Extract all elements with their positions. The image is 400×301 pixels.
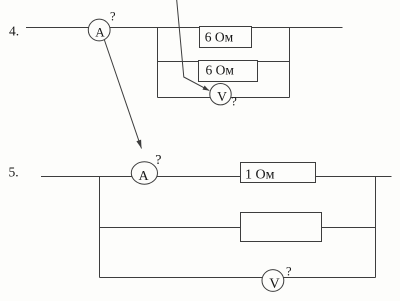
- wire ammeter A2 to right end: [156, 176, 392, 178]
- svg-text:6 Ом: 6 Ом: [206, 63, 235, 78]
- ammeter A2: [131, 162, 157, 184]
- resistor R3 1 Ом: [241, 163, 316, 183]
- wire left vertical branch (problem 4): [157, 28, 159, 98]
- wire right vertical branch (problem 4): [289, 28, 291, 98]
- wire middle rail (problem 5): [100, 227, 376, 229]
- svg-text:6 Ом: 6 Ом: [205, 30, 234, 45]
- svg-text:A: A: [138, 169, 149, 184]
- voltmeter V1: [210, 84, 231, 105]
- resistor R1 6 Ом: [200, 27, 252, 48]
- svg-text:V: V: [217, 89, 227, 104]
- resistor R4 unlabeled: [241, 213, 322, 242]
- ammeter A1: [88, 19, 110, 41]
- svg-text:?: ?: [231, 94, 237, 108]
- wire bottom rail (problem 5): [100, 277, 376, 279]
- wire middle rail (problem 4): [158, 61, 290, 63]
- wire ammeter A1 to right end: [109, 27, 343, 29]
- svg-text:?: ?: [155, 153, 161, 168]
- wire bottom rail (problem 4): [158, 97, 290, 99]
- voltmeter V2: [262, 270, 284, 292]
- svg-text:?: ?: [110, 9, 116, 23]
- wire right vertical branch (problem 5): [375, 177, 377, 278]
- svg-text:A: A: [95, 25, 105, 40]
- svg-text:V: V: [269, 276, 280, 292]
- wire left vertical branch (problem 5): [99, 177, 101, 278]
- svg-text:1 Ом: 1 Ом: [245, 168, 275, 183]
- svg-text:5.: 5.: [9, 164, 19, 179]
- svg-text:?: ?: [286, 265, 292, 279]
- annotation arrow from ammeter A1 to ammeter A2: [104, 40, 141, 149]
- wire left to ammeter A2: [41, 176, 133, 178]
- svg-text:4.: 4.: [9, 24, 19, 39]
- wire top-left to ammeter A1: [26, 27, 90, 29]
- annotation arrow pointing to voltmeter V1: [177, 0, 210, 91]
- resistor R2 6 Ом: [199, 61, 258, 82]
